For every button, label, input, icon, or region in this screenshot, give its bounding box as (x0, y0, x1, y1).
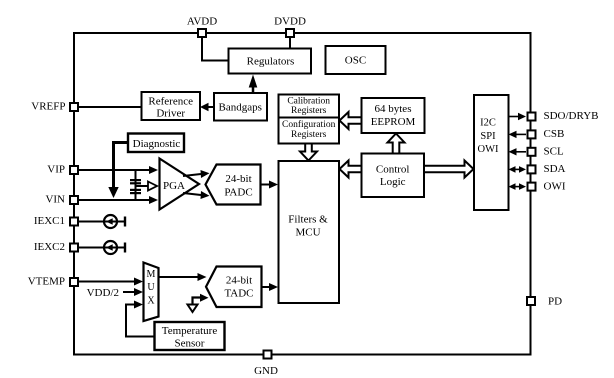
svg-text:CSB: CSB (544, 128, 565, 140)
pin OWI with double arrow (509, 181, 566, 193)
wire VIP to PGA (79, 166, 158, 174)
bandgaps box (214, 93, 267, 121)
svg-text:EEPROM: EEPROM (371, 116, 416, 128)
svg-text:Registers: Registers (291, 106, 327, 116)
svg-text:IEXC2: IEXC2 (34, 241, 65, 253)
24-bit TADC pentagon (206, 267, 262, 308)
wire DVDD to Regulators (289, 38, 291, 49)
wire Temperature Sensor to MUX (126, 301, 155, 337)
reference symbol into TADC (hollow down triangle with arrow) (188, 294, 209, 312)
reference driver box (142, 92, 201, 120)
temperature sensor box (155, 322, 225, 350)
hollow arrow Control Logic to I2C (424, 161, 474, 178)
wire MUX to TADC (159, 273, 207, 281)
pin VIP (47, 164, 78, 176)
capacitor branch wire (135, 170, 137, 200)
svg-text:U: U (147, 282, 155, 293)
VDD/2 label and arrow to MUX (87, 287, 143, 299)
pin VREFP (31, 101, 78, 113)
capacitor C1 (130, 179, 141, 184)
control logic box (362, 154, 425, 198)
pin IEXC1 (34, 215, 78, 227)
svg-text:MCU: MCU (295, 226, 320, 238)
svg-text:VIN: VIN (45, 194, 65, 206)
OSC box (326, 46, 386, 74)
pin AVDD (187, 16, 217, 38)
arrow PGA to PADC lower (183, 191, 210, 199)
pin DVDD (274, 16, 306, 38)
capacitor C2 (130, 189, 141, 194)
svg-text:SPI: SPI (480, 131, 496, 142)
arrow PADC to Filters&MCU (261, 181, 279, 189)
svg-text:SDO/DRYB: SDO/DRYB (544, 110, 599, 122)
svg-text:Reference: Reference (148, 96, 193, 108)
svg-text:24-bit: 24-bit (225, 173, 251, 185)
EEPROM box (362, 98, 425, 133)
svg-text:M: M (147, 269, 156, 280)
hollow arrow Registers to Filters&MCU (300, 144, 317, 161)
svg-text:IEXC1: IEXC1 (34, 215, 65, 227)
I2C SPI OWI box (474, 95, 509, 210)
svg-text:Registers: Registers (291, 130, 327, 140)
thick arrow Diagnostic to VIN wire (108, 143, 128, 199)
pin SDA with double arrow (509, 163, 566, 175)
svg-text:Filters &: Filters & (288, 214, 328, 226)
svg-text:PD: PD (548, 296, 562, 308)
svg-text:I2C: I2C (480, 118, 496, 129)
svg-text:PGA: PGA (163, 180, 185, 192)
wire VIN to PGA (79, 196, 158, 204)
pin IEXC2 (34, 241, 78, 253)
current source IEXC2 (79, 241, 126, 254)
wire VREFP to Reference Driver (79, 106, 142, 108)
calibration registers box (279, 95, 340, 118)
arrow PGA to PADC upper (183, 170, 210, 178)
hollow arrow EEPROM to Registers (340, 112, 362, 129)
svg-text:OWI: OWI (478, 144, 499, 155)
svg-text:Diagnostic: Diagnostic (133, 138, 181, 150)
configuration registers box (279, 118, 340, 144)
wire VTEMP to MUX (79, 278, 143, 286)
svg-text:Logic: Logic (380, 176, 406, 188)
svg-text:PADC: PADC (224, 187, 252, 199)
hollow arrow Control Logic to EEPROM (388, 134, 405, 154)
svg-text:VTEMP: VTEMP (28, 276, 65, 288)
svg-text:Regulators: Regulators (247, 56, 295, 68)
svg-text:Calibration: Calibration (287, 97, 330, 107)
hollow arrow Control Logic to Filters&MCU (340, 161, 362, 178)
24-bit PADC pentagon (206, 165, 261, 205)
open arrow cap tap to PGA (136, 182, 158, 191)
svg-text:Temperature: Temperature (162, 325, 218, 337)
svg-text:GND: GND (254, 365, 278, 377)
svg-text:SDA: SDA (544, 163, 566, 175)
svg-text:Driver: Driver (156, 108, 185, 120)
svg-text:SCL: SCL (544, 146, 564, 158)
wire AVDD to Regulators (202, 38, 229, 61)
svg-text:VIP: VIP (47, 164, 65, 176)
op-amp PGA (160, 159, 200, 210)
pin PD (527, 296, 562, 308)
regulators box (229, 49, 312, 74)
svg-text:AVDD: AVDD (187, 16, 217, 28)
svg-text:Bandgaps: Bandgaps (219, 102, 262, 114)
current source IEXC1 (79, 215, 126, 228)
svg-text:VREFP: VREFP (31, 101, 65, 113)
arrow Bandgaps to Reference Driver (200, 103, 214, 111)
pin SCL with arrow (509, 146, 564, 158)
svg-text:OSC: OSC (345, 55, 366, 67)
svg-text:Control: Control (376, 164, 410, 176)
arrow Bandgaps to Regulators (249, 75, 258, 94)
svg-text:VDD/2: VDD/2 (87, 287, 119, 299)
svg-text:Sensor: Sensor (175, 337, 205, 349)
pin VIN (45, 194, 78, 206)
svg-text:X: X (147, 296, 155, 307)
svg-text:Configuration: Configuration (282, 119, 336, 130)
chip boundary (74, 33, 531, 355)
pin VTEMP (28, 276, 78, 288)
arrow TADC to Filters&MCU (262, 283, 279, 291)
svg-text:TADC: TADC (224, 287, 253, 299)
pin CSB with arrow (509, 128, 565, 140)
svg-text:OWI: OWI (544, 181, 566, 193)
svg-text:64 bytes: 64 bytes (375, 103, 412, 115)
MUX trapezoid (144, 263, 159, 322)
svg-text:DVDD: DVDD (274, 16, 306, 28)
svg-text:24-bit: 24-bit (226, 275, 252, 287)
pin GND (254, 351, 278, 378)
filters & MCU box (279, 161, 340, 303)
diagnostic box (128, 134, 184, 153)
pin SDO/DRYB with arrow (509, 110, 599, 122)
